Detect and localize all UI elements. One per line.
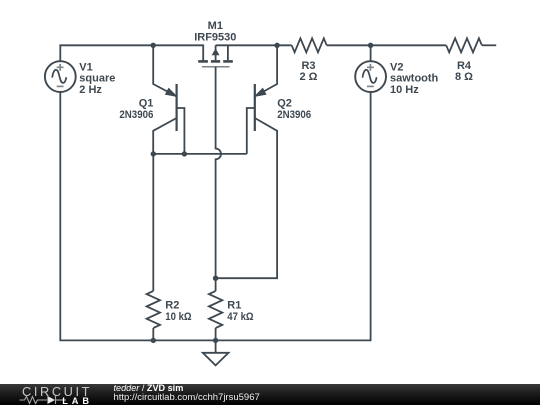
junction dot node R2 bottom / ground rail bbox=[151, 338, 156, 343]
transistor Q2 2N3906 (PNP) bbox=[216, 45, 278, 278]
wire M1 gate stem with hop over node wire bbox=[216, 67, 221, 279]
wire V1 bottom to bottom rail bbox=[60, 92, 153, 340]
svg-text:R2: R2 bbox=[165, 299, 179, 311]
ground bbox=[203, 340, 229, 365]
credit line bbox=[114, 383, 184, 393]
CircuitLab logo text LAB bbox=[62, 396, 93, 406]
junction dot node R1 top / M1 gate bbox=[213, 276, 218, 281]
footer bar bbox=[0, 384, 540, 405]
wire bottom rail middle bbox=[153, 339, 215, 341]
transistor M1 IRF9530 (PMOS) bbox=[198, 45, 233, 66]
junction dot node Q1 collector bbox=[151, 151, 156, 156]
voltage source V2 bbox=[355, 61, 386, 92]
junction dot node Q2 emitter / rail bbox=[274, 43, 279, 48]
junction dot node Q1 emitter / rail bbox=[151, 43, 156, 48]
svg-text:R1: R1 bbox=[227, 299, 241, 311]
svg-text:V1: V1 bbox=[79, 61, 92, 73]
svg-text:V2: V2 bbox=[390, 61, 403, 73]
svg-text:Q1: Q1 bbox=[139, 97, 154, 109]
wire R3 to R4 bbox=[327, 44, 447, 46]
junction dot node ground bbox=[213, 338, 218, 343]
junction dot node Q1 base bbox=[182, 151, 187, 156]
wire V2 top bbox=[370, 45, 372, 61]
svg-text:2N3906: 2N3906 bbox=[277, 109, 311, 121]
resistor R3 bbox=[292, 38, 327, 52]
svg-text:M1: M1 bbox=[208, 20, 223, 32]
wire mirror node (Q1 collector/base to Q2 base) bbox=[153, 153, 247, 155]
svg-text:2N3906: 2N3906 bbox=[119, 109, 153, 121]
voltage source V1 bbox=[45, 61, 76, 92]
svg-text:IRF9530: IRF9530 bbox=[194, 32, 236, 44]
transistor Q1 2N3906 (PNP) bbox=[153, 45, 184, 154]
svg-text:sawtooth: sawtooth bbox=[390, 73, 439, 85]
wire top rail right segment (M1 to R3) bbox=[216, 44, 292, 46]
wire top rail left segment (V1 top to M1 source) bbox=[60, 45, 203, 61]
wire V2 bottom to bottom rail bbox=[216, 92, 371, 340]
svg-text:2 Ω: 2 Ω bbox=[300, 71, 318, 83]
wire R4 open end bbox=[482, 44, 496, 46]
CircuitLab logo mini schematic glyph bbox=[19, 394, 69, 406]
CircuitLab logo text CIRCUIT bbox=[22, 384, 92, 399]
junction dot node V2 top / rail bbox=[368, 43, 373, 48]
resistor R2 bbox=[152, 154, 154, 291]
svg-text:square: square bbox=[79, 73, 115, 85]
svg-text:Q2: Q2 bbox=[277, 97, 292, 109]
svg-text:47 kΩ: 47 kΩ bbox=[227, 311, 253, 323]
svg-text:10 kΩ: 10 kΩ bbox=[165, 311, 191, 323]
svg-text:8 Ω: 8 Ω bbox=[455, 71, 473, 83]
svg-text:2 Hz: 2 Hz bbox=[79, 84, 102, 96]
svg-text:10 Hz: 10 Hz bbox=[390, 84, 419, 96]
resistor R4 bbox=[446, 38, 482, 52]
resistor R1 bbox=[215, 278, 217, 291]
url line bbox=[114, 392, 260, 403]
